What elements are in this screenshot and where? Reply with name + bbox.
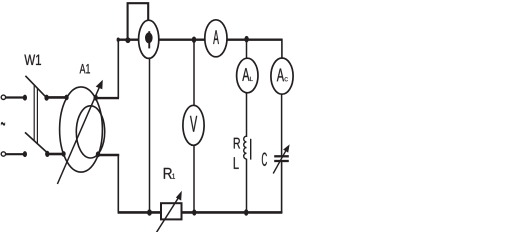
wire bottom rail right corner up to capacitor bbox=[281, 161, 283, 213]
junction dot A1 right bottom tap bbox=[96, 151, 100, 157]
wattmeter phi glyph bbox=[145, 31, 153, 48]
wire AL branch bbox=[246, 40, 248, 137]
voltmeter V glyph bbox=[190, 116, 197, 132]
label W1 bbox=[24, 55, 41, 65]
autotransformer A1 variable arrow shaft bbox=[57, 88, 99, 184]
switch W1 linkage bar left bbox=[33, 85, 35, 141]
wire top rail right corner down to AC meter bbox=[281, 39, 283, 60]
wire A1 top tap line bbox=[95, 97, 119, 99]
junction dot phi-meter bottom bbox=[147, 209, 152, 215]
inductor L coil arcs bbox=[244, 136, 247, 159]
capacitor C top plate bbox=[274, 155, 289, 157]
wattmeter current-coil loop bbox=[128, 3, 149, 39]
label C of capacitor bbox=[262, 153, 267, 167]
ammeter AL glyph A bbox=[242, 68, 249, 81]
junction dot top rail left corner bbox=[117, 38, 120, 42]
ammeter AC body bbox=[271, 58, 293, 94]
junction dot voltmeter bottom bbox=[192, 209, 196, 215]
junction dot bottom terminal bbox=[23, 151, 27, 157]
wire top rail bbox=[118, 39, 283, 41]
wire switch to A1 bottom bbox=[49, 153, 63, 156]
wire switch to A1 top bbox=[48, 96, 66, 99]
ammeter AL subscript L bbox=[250, 77, 253, 81]
switch W1 linkage bar right bbox=[36, 88, 38, 144]
wire top terminal lead bbox=[6, 96, 24, 98]
junction dot voltmeter top bbox=[192, 37, 196, 43]
wire A1 bottom tap line bbox=[97, 154, 119, 156]
rheostat R1 arrowhead bbox=[176, 191, 182, 201]
rheostat R1 arrow shaft bbox=[156, 196, 179, 233]
junction dot A1 left bottom bbox=[62, 151, 66, 157]
junction dot switch top contact bbox=[44, 95, 48, 101]
voltmeter V body bbox=[183, 105, 204, 145]
source terminal ring top bbox=[1, 95, 5, 99]
ammeter A body bbox=[205, 20, 227, 57]
junction dot switch bottom contact bbox=[45, 151, 49, 157]
wire vertical from top rail down to A1 tap bbox=[117, 39, 119, 99]
capacitor variable arrow shaft bbox=[273, 151, 286, 174]
junction dot wattmeter loop on rail bbox=[125, 37, 130, 43]
wire phi-meter bottom lead down to bottom rail bbox=[149, 57, 151, 212]
wire vertical from A1 bottom tap down to bottom rail bbox=[117, 154, 119, 212]
ammeter AL body bbox=[237, 58, 258, 93]
ammeter AC glyph A bbox=[277, 69, 284, 82]
label A1 bbox=[80, 64, 90, 73]
autotransformer A1 arrowhead bbox=[96, 80, 103, 90]
capacitor arrowhead bbox=[283, 144, 290, 152]
wattmeter phi body bbox=[139, 20, 159, 58]
wire AC meter to capacitor lead bbox=[281, 92, 283, 156]
junction dot A1 left top bbox=[65, 95, 69, 101]
junction dot AL bottom bbox=[244, 209, 248, 215]
label tilde AC source bbox=[1, 122, 5, 126]
wire voltmeter branch bbox=[193, 40, 195, 212]
label R1 subscript 1 bbox=[172, 174, 175, 179]
autotransformer A1 outer winding bbox=[60, 87, 103, 172]
wire bottom terminal lead bbox=[6, 153, 24, 155]
capacitor C bottom plate bbox=[274, 160, 289, 162]
junction dot A1 right top tap bbox=[94, 95, 98, 101]
label L of coil bbox=[234, 157, 239, 169]
junction dot AL top bbox=[244, 36, 248, 43]
rheostat R1 body bbox=[161, 203, 182, 219]
wire bottom rail bbox=[118, 211, 283, 214]
switch W1 bottom blade bbox=[25, 132, 48, 153]
source terminal ring bottom bbox=[1, 152, 5, 156]
wire inductor bottom lead bbox=[246, 159, 248, 212]
switch W1 top blade bbox=[25, 76, 46, 98]
label R of coil bbox=[234, 138, 240, 149]
label R1 letter R bbox=[164, 168, 172, 179]
inductor core bar bbox=[250, 139, 252, 160]
autotransformer A1 inner winding bbox=[76, 106, 104, 158]
junction dot top terminal bbox=[23, 95, 27, 101]
ammeter AC subscript C bbox=[285, 77, 288, 81]
ammeter A glyph bbox=[213, 30, 219, 44]
